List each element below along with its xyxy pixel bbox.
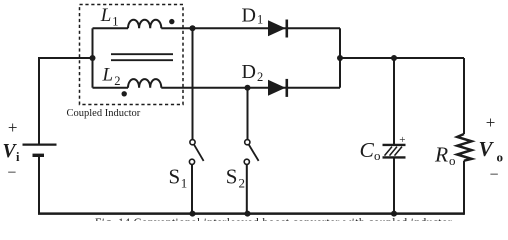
inductor L1 bbox=[128, 20, 161, 29]
wire feed from source to inductor junction bbox=[38, 57, 93, 59]
svg-text:+: + bbox=[8, 118, 18, 137]
node junction at coupled-inductor input bbox=[90, 55, 96, 61]
svg-text:C: C bbox=[360, 138, 375, 162]
svg-text:i: i bbox=[16, 150, 20, 164]
battery source Vi bbox=[23, 145, 57, 156]
svg-text:1: 1 bbox=[181, 176, 188, 191]
svg-text:2: 2 bbox=[114, 74, 120, 88]
label L2 bbox=[102, 65, 121, 89]
polarity dot L1 bbox=[169, 19, 174, 24]
svg-text:+: + bbox=[486, 113, 496, 132]
svg-text:V: V bbox=[479, 137, 495, 161]
svg-text:o: o bbox=[497, 149, 504, 164]
wire primary-loop left vertical bbox=[92, 28, 94, 87]
svg-text:+: + bbox=[399, 134, 405, 146]
switch S1 bbox=[189, 28, 203, 213]
svg-text:D: D bbox=[242, 61, 256, 83]
switch S2 bbox=[244, 88, 258, 214]
wire Ro lower lead bbox=[463, 161, 465, 215]
label S1 bbox=[169, 165, 188, 191]
svg-text:L: L bbox=[102, 65, 114, 86]
node junction S1 tap bbox=[190, 25, 196, 31]
wire left rail lower bbox=[38, 155, 40, 213]
svg-text:Fig. 14 Conventional interleav: Fig. 14 Conventional interleaved boost c… bbox=[95, 217, 452, 221]
coupled inductor dashed box bbox=[80, 5, 184, 105]
label L1 bbox=[100, 5, 119, 29]
resistor Ro bbox=[457, 134, 471, 161]
svg-text:2: 2 bbox=[257, 70, 263, 84]
svg-text:R: R bbox=[434, 143, 448, 167]
node junction S2 on rail bbox=[245, 211, 251, 217]
wire capacitor upper lead bbox=[393, 58, 395, 144]
svg-text:o: o bbox=[449, 153, 456, 168]
wire bottom rail bbox=[38, 212, 464, 215]
polarity dot L2 bbox=[122, 91, 127, 96]
svg-text:−: − bbox=[7, 165, 16, 182]
svg-text:1: 1 bbox=[257, 13, 263, 27]
label Ro bbox=[434, 143, 456, 169]
svg-text:o: o bbox=[374, 148, 381, 163]
wire L2 left lead bbox=[93, 87, 129, 89]
wire Ro upper lead bbox=[463, 58, 465, 134]
inductor L2 bbox=[128, 79, 161, 88]
label Vo bbox=[479, 137, 504, 164]
wire left rail upper bbox=[38, 57, 40, 144]
label D2 bbox=[242, 61, 264, 84]
wire top row L1 to diode vertical bbox=[161, 27, 340, 29]
svg-text:S: S bbox=[169, 165, 181, 189]
svg-text:S: S bbox=[226, 165, 238, 189]
diode D1 bbox=[268, 20, 287, 38]
svg-text:2: 2 bbox=[239, 176, 246, 191]
label S2 bbox=[226, 165, 245, 191]
wire D2 row L2 to diode vertical bbox=[161, 87, 340, 89]
svg-text:L: L bbox=[100, 5, 112, 26]
node junction capacitor tap bbox=[391, 55, 397, 61]
wire diode output vertical bbox=[339, 28, 341, 87]
svg-text:D: D bbox=[242, 5, 256, 27]
label D1 bbox=[242, 5, 264, 27]
core lines of coupled inductor bbox=[111, 54, 173, 60]
wire output row bbox=[340, 57, 464, 59]
node junction S2 tap bbox=[245, 85, 251, 91]
node junction S1 on rail bbox=[190, 211, 196, 217]
capacitor Co bbox=[383, 145, 406, 158]
svg-text:Coupled Inductor: Coupled Inductor bbox=[67, 108, 141, 119]
svg-text:1: 1 bbox=[112, 15, 118, 29]
wire L1 left lead bbox=[93, 27, 129, 29]
svg-text:−: − bbox=[490, 167, 499, 184]
node junction Co on rail bbox=[391, 211, 397, 217]
label Co bbox=[360, 138, 381, 163]
diode D2 bbox=[268, 79, 287, 97]
label Vi bbox=[3, 141, 21, 164]
node junction output bbox=[337, 55, 343, 61]
wire capacitor lower lead bbox=[393, 157, 395, 213]
